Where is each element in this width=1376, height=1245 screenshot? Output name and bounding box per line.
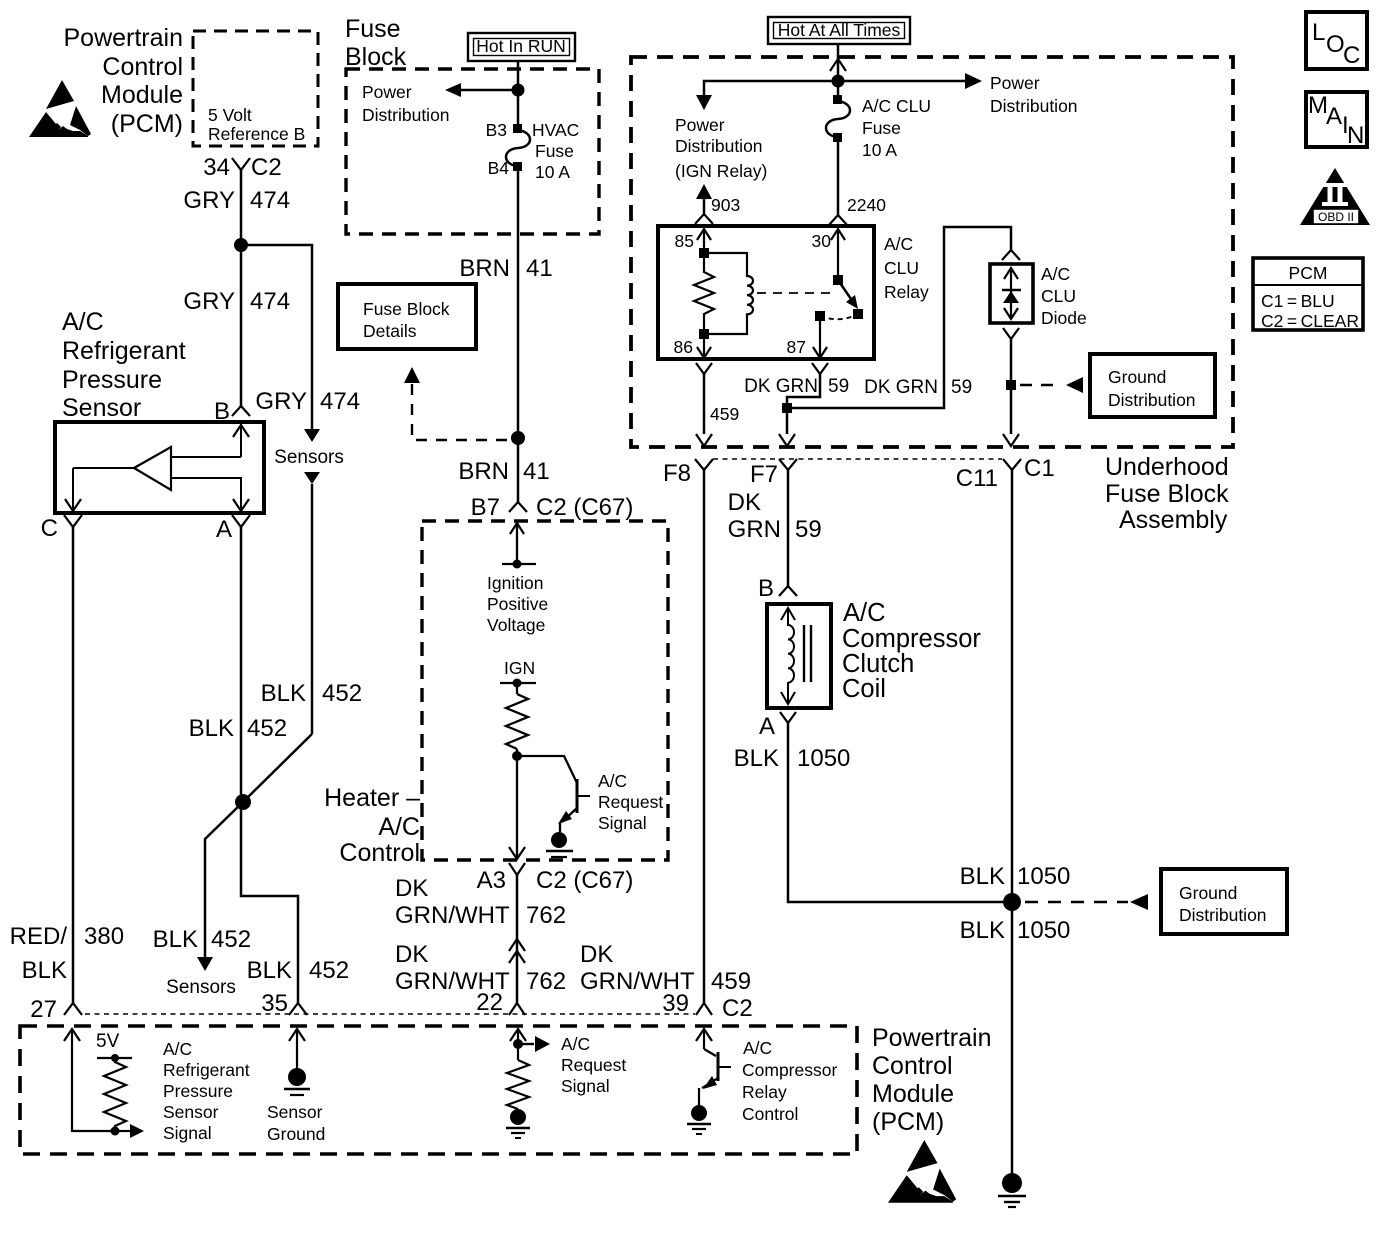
svg-text:Power: Power xyxy=(362,82,412,102)
connector C11 / C1 xyxy=(956,455,1055,492)
svg-text:Reference B: Reference B xyxy=(208,124,305,144)
wire BRN 41 xyxy=(458,167,552,485)
svg-text:BRN: BRN xyxy=(458,458,509,485)
dashed link to ground distribution xyxy=(1020,377,1083,393)
svg-text:Powertrain: Powertrain xyxy=(872,1024,992,1052)
svg-text:Request: Request xyxy=(598,792,663,812)
svg-text:Ground: Ground xyxy=(1108,367,1166,387)
svg-text:Fuse: Fuse xyxy=(535,141,574,161)
wire 903 (IGN relay feed) xyxy=(695,184,740,224)
svg-text:Sensor: Sensor xyxy=(62,394,141,422)
svg-text:85: 85 xyxy=(675,231,694,251)
svg-text:Positive: Positive xyxy=(487,594,548,614)
ground (heater internal) xyxy=(546,832,573,857)
power distribution arrow (right) xyxy=(838,73,1078,116)
PCM title (bottom) xyxy=(872,1024,992,1136)
Underhood Fuse Block Assembly label xyxy=(1105,453,1229,534)
svg-text:BLK: BLK xyxy=(960,917,1005,944)
svg-text:Pressure: Pressure xyxy=(62,366,162,394)
PCM connector legend box xyxy=(1253,258,1363,331)
svg-text:C: C xyxy=(41,515,58,542)
Heater A/C Control dashed box xyxy=(422,521,668,860)
terminal C xyxy=(41,515,82,542)
svg-text:B7: B7 xyxy=(471,494,500,521)
A/C CLU diode box xyxy=(990,264,1087,328)
svg-text:Signal: Signal xyxy=(598,813,647,833)
svg-text:Hot At All Times: Hot At All Times xyxy=(778,20,901,40)
svg-text:Fuse Block: Fuse Block xyxy=(1105,480,1229,508)
relay coil xyxy=(704,253,753,334)
svg-text:(PCM): (PCM) xyxy=(111,110,183,138)
connector B7 / C2 (C67) xyxy=(471,494,634,521)
svg-text:BLK: BLK xyxy=(189,715,234,742)
connector below relay pin 87 xyxy=(812,363,828,374)
svg-text:A/C: A/C xyxy=(884,234,913,254)
junction square to ground distribution xyxy=(1006,380,1016,390)
svg-text:452: 452 xyxy=(322,680,362,707)
A/C CLU Relay label xyxy=(884,234,929,302)
svg-text:380: 380 xyxy=(84,923,124,950)
svg-text:452: 452 xyxy=(247,715,287,742)
LOC legend box xyxy=(1306,12,1367,69)
terminal B (sensor) xyxy=(214,398,250,425)
svg-text:2240: 2240 xyxy=(847,195,886,215)
connector F7 xyxy=(750,459,797,488)
battery feed wire xyxy=(830,44,846,99)
junction node xyxy=(512,751,522,761)
OBD II symbol xyxy=(1300,168,1370,225)
A/C Refrigerant Pressure Sensor title xyxy=(62,308,186,422)
svg-text:IGN: IGN xyxy=(504,658,535,678)
svg-text:22: 22 xyxy=(476,989,503,1016)
svg-text:1050: 1050 xyxy=(1017,917,1070,944)
svg-text:Ground: Ground xyxy=(1179,883,1237,903)
svg-text:C1: C1 xyxy=(1024,455,1055,482)
svg-text:C: C xyxy=(1343,42,1360,69)
svg-text:O: O xyxy=(1326,31,1345,58)
svg-text:A/C: A/C xyxy=(743,1038,772,1058)
A/C Compressor Clutch Coil label xyxy=(842,599,981,703)
svg-text:A/C: A/C xyxy=(561,1034,590,1054)
wire GRY 474 (PCM to sensor B) xyxy=(183,170,290,406)
svg-text:903: 903 xyxy=(711,195,740,215)
svg-text:Sensors: Sensors xyxy=(274,447,344,468)
svg-text:5 Volt: 5 Volt xyxy=(208,105,252,125)
svg-text:BLK: BLK xyxy=(247,957,292,984)
wire DK GRN/WHT 459 (F8 to pin 39) xyxy=(580,470,751,1003)
5 Volt Reference B dashed box xyxy=(193,31,318,146)
pin 27 connector xyxy=(30,996,82,1023)
svg-text:BRN: BRN xyxy=(459,255,510,282)
svg-text:Underhood: Underhood xyxy=(1105,453,1229,481)
svg-text:10 A: 10 A xyxy=(862,140,897,160)
power distribution arrow (left) xyxy=(362,82,518,125)
svg-text:N: N xyxy=(1347,122,1364,149)
svg-text:A/C: A/C xyxy=(378,813,420,841)
ignition positive voltage terminal xyxy=(487,523,548,635)
svg-text:Signal: Signal xyxy=(163,1123,212,1143)
Hot At All Times tag xyxy=(768,17,910,44)
wire DK GRN 59 (F7 to coil B) xyxy=(728,470,822,586)
wire RED/BLK 380 (C to pin 27) xyxy=(10,527,124,1003)
sensor internal wire C xyxy=(65,468,81,513)
svg-text:A/C CLU: A/C CLU xyxy=(862,96,931,116)
svg-text:B3: B3 xyxy=(486,120,507,140)
svg-text:35: 35 xyxy=(261,990,288,1017)
wire to B7 xyxy=(517,438,520,502)
svg-text:Powertrain: Powertrain xyxy=(64,24,184,52)
sensor ground xyxy=(267,1029,325,1144)
clutch coil winding xyxy=(781,608,811,704)
diode ground wire to C1 xyxy=(1003,339,1019,446)
A/C compressor clutch coil box xyxy=(767,604,831,708)
svg-text:Control: Control xyxy=(872,1052,953,1080)
bottom PCM connector row dashed line xyxy=(85,1013,695,1015)
svg-text:BLK: BLK xyxy=(22,957,67,984)
connector below diode xyxy=(1003,328,1019,339)
svg-text:87: 87 xyxy=(787,337,806,357)
A/C Refrigerant Pressure Sensor Signal label xyxy=(163,1039,250,1143)
svg-text:59: 59 xyxy=(951,377,972,398)
svg-text:Compressor: Compressor xyxy=(742,1060,837,1080)
svg-text:Heater –: Heater – xyxy=(324,784,420,812)
svg-text:RED/: RED/ xyxy=(10,923,68,950)
connector 34 / C2 xyxy=(203,154,281,181)
wire DK GRN/WHT 762 xyxy=(395,875,566,1003)
svg-text:762: 762 xyxy=(526,968,566,995)
svg-text:Details: Details xyxy=(363,321,417,341)
underhood fuse block assembly dashed box xyxy=(631,57,1233,447)
Hot In RUN tag xyxy=(468,33,575,61)
Fuse Block Details box xyxy=(338,284,476,349)
relay linkage dashed line xyxy=(757,292,834,294)
svg-text:41: 41 xyxy=(523,458,550,485)
junction node on BLK 452 xyxy=(235,794,251,810)
terminal B (coil) xyxy=(758,575,797,602)
svg-text:DK GRN: DK GRN xyxy=(744,376,818,397)
svg-text:(PCM): (PCM) xyxy=(872,1108,944,1136)
svg-text:10 A: 10 A xyxy=(535,162,570,182)
pin 35 connector xyxy=(261,990,307,1017)
junction node xyxy=(512,84,525,97)
Ground Distribution box (lower) xyxy=(1161,869,1287,934)
svg-text:474: 474 xyxy=(250,187,290,214)
resistor (heater pull-up) xyxy=(506,694,528,749)
wire DK GRN 59 branch to diode xyxy=(792,227,1020,408)
svg-text:Refrigerant: Refrigerant xyxy=(163,1060,250,1080)
svg-text:C2 = CLEAR: C2 = CLEAR xyxy=(1261,311,1359,331)
dashed reference arrow to Fuse Block Details xyxy=(404,367,511,440)
sensor internal wire B xyxy=(233,422,249,513)
svg-text:A/C: A/C xyxy=(1041,264,1070,284)
IGN node xyxy=(500,658,536,694)
svg-text:Fuse: Fuse xyxy=(345,15,401,43)
HVAC fuse 10A (B3-B4) xyxy=(486,120,580,182)
svg-text:DK: DK xyxy=(395,875,428,902)
ESD symbol (PCM top-left) xyxy=(29,80,91,137)
Heater A/C Control title xyxy=(324,784,420,867)
relay coil junction squares xyxy=(699,248,709,258)
svg-text:41: 41 xyxy=(526,255,553,282)
svg-text:Ground: Ground xyxy=(267,1124,325,1144)
svg-text:DK: DK xyxy=(728,489,761,516)
svg-text:CLU: CLU xyxy=(884,258,919,278)
svg-text:A: A xyxy=(1326,103,1342,130)
chassis ground (BLK 1050) xyxy=(998,1173,1026,1207)
svg-text:Distribution: Distribution xyxy=(1179,905,1267,925)
svg-text:452: 452 xyxy=(309,957,349,984)
svg-text:GRN/WHT: GRN/WHT xyxy=(395,902,510,929)
svg-text:59: 59 xyxy=(828,376,849,397)
svg-text:Sensor: Sensor xyxy=(163,1102,219,1122)
svg-text:30: 30 xyxy=(812,231,832,251)
relay resistor xyxy=(694,258,714,329)
svg-text:459: 459 xyxy=(711,968,751,995)
svg-text:OBD II: OBD II xyxy=(1318,210,1354,224)
svg-text:Distribution: Distribution xyxy=(675,136,763,156)
svg-text:C1 = BLU: C1 = BLU xyxy=(1261,291,1335,311)
svg-text:Sensor: Sensor xyxy=(267,1102,323,1122)
svg-text:DK: DK xyxy=(395,941,428,968)
branch wire GRY 474 to Sensors xyxy=(241,245,360,734)
svg-text:A/C: A/C xyxy=(843,599,886,627)
pressure sensor box xyxy=(55,422,264,513)
svg-text:Distribution: Distribution xyxy=(1108,390,1196,410)
svg-text:Block: Block xyxy=(345,43,407,71)
inline splice chevrons xyxy=(509,939,525,963)
svg-text:PCM: PCM xyxy=(1289,263,1328,283)
svg-text:Fuse Block: Fuse Block xyxy=(363,299,450,319)
svg-text:Request: Request xyxy=(561,1055,626,1075)
svg-text:Control: Control xyxy=(339,839,420,867)
svg-text:Signal: Signal xyxy=(561,1076,610,1096)
wire BLK 1050 (coil A to splice) xyxy=(734,723,1003,902)
svg-text:Diode: Diode xyxy=(1041,308,1087,328)
svg-text:5V: 5V xyxy=(96,1031,120,1052)
svg-text:BLK: BLK xyxy=(960,863,1005,890)
svg-text:1050: 1050 xyxy=(1017,863,1070,890)
wire DK GRN 59 (relay 87 to F7) xyxy=(744,374,849,446)
relay pin 87 xyxy=(787,311,827,358)
svg-text:A3: A3 xyxy=(477,867,506,894)
svg-text:Coil: Coil xyxy=(842,675,886,703)
wire 459 (relay 86 to F8) xyxy=(696,374,739,446)
svg-text:HVAC: HVAC xyxy=(532,120,579,140)
A/C request signal input xyxy=(506,1029,626,1138)
wire BLK 452 (A to pin 35) xyxy=(189,527,349,1003)
junction node on GRY 474 xyxy=(234,238,248,252)
svg-text:Relay: Relay xyxy=(742,1082,787,1102)
connector A3 / C2 (C67) xyxy=(477,863,634,894)
svg-text:C2: C2 xyxy=(722,995,753,1022)
op-amp (sensor internal) xyxy=(73,447,242,490)
svg-text:Distribution: Distribution xyxy=(362,105,450,125)
svg-text:Clutch: Clutch xyxy=(842,650,914,678)
svg-text:DK: DK xyxy=(580,941,613,968)
svg-text:A: A xyxy=(759,713,775,740)
A/C CLU fuse 10A xyxy=(826,95,931,160)
svg-text:Voltage: Voltage xyxy=(487,615,545,635)
svg-text:474: 474 xyxy=(320,388,360,415)
svg-text:C11: C11 xyxy=(956,465,998,492)
svg-text:Module: Module xyxy=(872,1080,954,1108)
svg-text:C2 (C67): C2 (C67) xyxy=(536,494,633,521)
svg-text:B: B xyxy=(758,575,774,602)
svg-text:GRY: GRY xyxy=(255,388,307,415)
relay pin 85 xyxy=(675,229,711,253)
svg-text:GRN: GRN xyxy=(728,516,781,543)
svg-text:Pressure: Pressure xyxy=(163,1081,233,1101)
ESD symbol (PCM bottom) xyxy=(888,1140,956,1203)
svg-text:(IGN Relay): (IGN Relay) xyxy=(675,161,767,181)
terminal A xyxy=(216,515,250,543)
PCM title (top-left) xyxy=(64,24,184,138)
svg-text:C2: C2 xyxy=(251,154,282,181)
svg-text:BLK: BLK xyxy=(734,745,779,772)
connector row dashed line xyxy=(713,458,1002,460)
svg-text:GRY: GRY xyxy=(183,288,235,315)
svg-text:DK GRN: DK GRN xyxy=(864,377,938,398)
A/C CLU relay box xyxy=(658,226,874,359)
svg-text:GRY: GRY xyxy=(183,187,235,214)
svg-text:A: A xyxy=(216,516,232,543)
svg-text:Hot In RUN: Hot In RUN xyxy=(476,36,565,56)
connector F8 xyxy=(663,459,713,487)
Ground Distribution box (upper) xyxy=(1090,354,1215,417)
svg-text:Assembly: Assembly xyxy=(1119,506,1228,534)
svg-text:39: 39 xyxy=(662,990,689,1017)
svg-text:A/C: A/C xyxy=(163,1039,192,1059)
svg-text:762: 762 xyxy=(526,902,566,929)
svg-text:34: 34 xyxy=(203,154,230,181)
wire BLK 452 branch (sensors splice) xyxy=(153,680,362,998)
junction node BLK 1050 xyxy=(1003,893,1021,911)
svg-text:Control: Control xyxy=(102,53,183,81)
dashed link to ground distribution (lower) xyxy=(1025,894,1148,910)
svg-text:L: L xyxy=(1312,19,1325,46)
relay pin 86 xyxy=(674,337,711,358)
svg-text:452: 452 xyxy=(211,926,251,953)
fuse block dashed box xyxy=(346,69,599,234)
svg-text:1050: 1050 xyxy=(797,745,850,772)
svg-text:Power: Power xyxy=(675,115,725,135)
svg-text:A/C: A/C xyxy=(62,308,104,336)
junction node xyxy=(832,75,845,88)
svg-text:Power: Power xyxy=(990,73,1040,93)
pin 22 connector xyxy=(476,989,525,1016)
junction node BRN 41 xyxy=(511,431,525,445)
svg-text:59: 59 xyxy=(795,516,822,543)
svg-text:M: M xyxy=(1308,92,1328,119)
svg-text:Ignition: Ignition xyxy=(487,573,543,593)
transistor (A/C compressor relay control) xyxy=(687,1029,837,1134)
relay switch arm xyxy=(820,275,863,319)
svg-text:CLU: CLU xyxy=(1041,286,1076,306)
5V reference resistor circuit xyxy=(64,1029,144,1138)
svg-text:BLK: BLK xyxy=(261,680,306,707)
connector below relay pin 86 xyxy=(696,363,712,374)
svg-text:27: 27 xyxy=(30,996,57,1023)
svg-text:86: 86 xyxy=(674,337,693,357)
relay pin 30 xyxy=(812,229,845,280)
svg-text:F8: F8 xyxy=(663,460,691,487)
svg-text:A/C: A/C xyxy=(598,771,627,791)
svg-text:459: 459 xyxy=(710,404,739,424)
svg-text:Relay: Relay xyxy=(884,282,929,302)
pin 39 / C2 connector xyxy=(662,990,752,1022)
wire 2240 xyxy=(829,138,886,225)
terminal A (coil) xyxy=(759,712,796,740)
svg-text:Distribution: Distribution xyxy=(990,96,1078,116)
svg-text:Compressor: Compressor xyxy=(842,625,981,653)
wire down to A3 xyxy=(509,756,525,859)
wire from Hot In RUN xyxy=(517,61,520,128)
svg-text:Sensors: Sensors xyxy=(166,977,236,998)
svg-text:F7: F7 xyxy=(750,461,778,488)
svg-text:Fuse: Fuse xyxy=(862,118,901,138)
power distribution arrow (IGN relay, left) xyxy=(675,81,838,181)
wire BLK 1050 (C1 to ground) xyxy=(960,470,1071,1174)
svg-text:C2 (C67): C2 (C67) xyxy=(536,867,633,894)
PCM dashed box (bottom) xyxy=(20,1026,857,1154)
svg-text:Refrigerant: Refrigerant xyxy=(62,337,186,365)
svg-text:Module: Module xyxy=(101,81,183,109)
MAIN legend box xyxy=(1306,92,1367,149)
svg-text:BLK: BLK xyxy=(153,926,198,953)
svg-text:474: 474 xyxy=(250,288,290,315)
transistor (A/C request signal) xyxy=(517,749,663,833)
Fuse Block title xyxy=(345,15,407,71)
svg-text:Control: Control xyxy=(742,1104,798,1124)
junction square DK GRN 59 xyxy=(782,403,792,413)
